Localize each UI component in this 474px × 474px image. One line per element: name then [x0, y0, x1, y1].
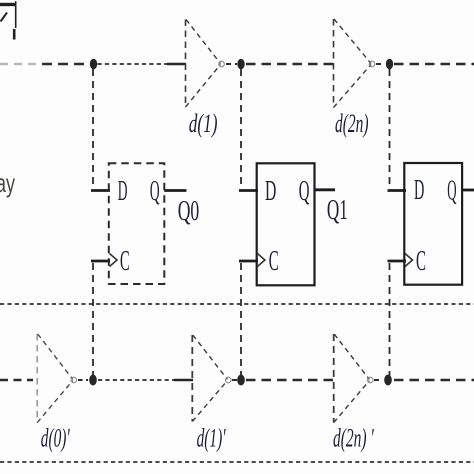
wire: solid stub into d(1)'	[174, 379, 193, 382]
wire: d(1) output to node B	[226, 63, 237, 65]
D flip-flop FF2 (solid)	[257, 163, 315, 285]
wire: top data line to node A	[42, 63, 89, 66]
wire: FF3 C input stub	[388, 260, 407, 263]
wire: d(0)' output to clock node D1	[78, 379, 88, 381]
wire: d(1)' output to clock node D2	[232, 379, 237, 381]
wire: FF3 D input stub	[388, 189, 407, 192]
buffer d(0)'	[37, 334, 76, 423]
svg-text:D: D	[118, 176, 128, 207]
node B (junction dot)	[237, 59, 244, 70]
wire: node A to buffer d(1) input	[98, 63, 168, 65]
wire: solid stub into d(1)	[167, 63, 186, 66]
svg-text:ay: ay	[0, 168, 15, 198]
FF2 clock wedge	[257, 254, 265, 267]
buffer d(1)'	[192, 335, 231, 422]
buffer d(2n)	[334, 19, 375, 108]
wire: FF2 D input stub	[239, 189, 258, 192]
FF3 clock wedge	[405, 254, 413, 267]
svg-text:D: D	[265, 176, 276, 207]
svg-text:C: C	[269, 246, 279, 277]
D flip-flop FF1 (dashed)	[109, 163, 165, 284]
wire: node B to buffer d(2n) input	[246, 63, 333, 65]
wire: bottom horizontal dashed rail	[0, 461, 474, 463]
svg-text:Q0: Q0	[178, 196, 200, 227]
wire: top data line left faded segment	[0, 63, 40, 65]
svg-text:Q: Q	[150, 176, 160, 207]
svg-text:d(0)′: d(0)′	[41, 424, 70, 453]
wire: node C1 to right edge	[394, 63, 474, 65]
node C1 (junction dot)	[386, 59, 393, 70]
wire: middle horizontal dashed rail	[0, 303, 474, 305]
FF3 body	[404, 163, 462, 285]
svg-text:C: C	[416, 246, 426, 277]
D flip-flop FF3 (solid)	[404, 163, 462, 285]
buffer d(2n)'	[334, 334, 373, 423]
svg-text:Q: Q	[299, 176, 310, 207]
wire: clock node D2 to buffer d(2n)' input	[246, 379, 333, 381]
svg-text:d(1)′: d(1)′	[197, 424, 226, 453]
FF1 body	[109, 163, 165, 284]
wire: FF2 C input up from clock node D2	[240, 263, 242, 376]
wire: FF3 Q output	[462, 189, 474, 192]
wire: FF1 D input stub	[91, 189, 110, 192]
wire: FF3 C input up from clock node D3	[389, 263, 391, 376]
wire: FF2 Q output	[315, 188, 336, 191]
wire: node B down to FF2 D input	[240, 69, 242, 186]
svg-text:d(2n) ′: d(2n) ′	[333, 424, 374, 453]
wire: d(2n) output to node C1	[376, 63, 385, 65]
wire: FF1 C input stub	[91, 260, 110, 263]
svg-text:Q1: Q1	[327, 195, 348, 226]
FF2 body	[257, 163, 315, 285]
svg-text:Q: Q	[447, 176, 456, 207]
FF1 clock wedge	[110, 254, 118, 267]
wire: FF2 C input stub	[239, 260, 258, 263]
wire: node C1 down to FF3 D input	[389, 69, 391, 186]
wire: FF1 C input up from clock node D1	[92, 263, 94, 376]
wire: clock line left segment	[0, 379, 33, 381]
wire: node A down to FF1 D input	[92, 69, 94, 186]
clock node D3 (junction dot)	[384, 375, 392, 386]
clock node D1 (junction dot)	[89, 375, 97, 386]
node A (junction dot)	[90, 59, 97, 70]
buffer d(1)	[186, 20, 225, 108]
clock node D2 (junction dot)	[237, 375, 245, 386]
cropped corner symbol top-left	[0, 1, 16, 39]
svg-text:D: D	[414, 175, 424, 206]
svg-text:d(2n): d(2n)	[335, 109, 369, 138]
wire: clock node D1 to buffer d(1)' input	[98, 379, 174, 381]
wire: d(2n)' output to clock node D3	[374, 379, 383, 381]
svg-text:C: C	[120, 246, 130, 277]
svg-text:d(1): d(1)	[189, 109, 218, 138]
wire: clock node D3 to right edge	[394, 379, 474, 381]
wire: FF1 Q output	[164, 189, 186, 192]
